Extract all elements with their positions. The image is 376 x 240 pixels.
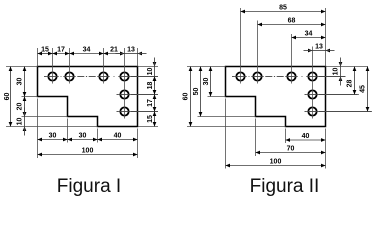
svg-text:50: 50 [193, 88, 200, 96]
svg-text:70: 70 [287, 146, 295, 153]
svg-text:30: 30 [203, 78, 210, 86]
svg-text:10: 10 [17, 118, 24, 126]
svg-text:13: 13 [127, 47, 135, 54]
svg-text:20: 20 [17, 103, 24, 111]
svg-text:28: 28 [347, 80, 354, 88]
svg-text:100: 100 [270, 159, 282, 166]
svg-text:45: 45 [360, 85, 367, 93]
svg-text:21: 21 [110, 47, 118, 54]
svg-text:Figura II: Figura II [250, 176, 320, 197]
svg-text:Figura I: Figura I [57, 176, 121, 197]
svg-text:10: 10 [147, 68, 154, 76]
svg-text:68: 68 [288, 18, 296, 25]
svg-text:30: 30 [17, 78, 24, 86]
svg-text:40: 40 [302, 133, 310, 140]
svg-text:30: 30 [49, 133, 57, 140]
svg-text:15: 15 [147, 115, 154, 123]
svg-text:15: 15 [41, 47, 49, 54]
svg-text:17: 17 [57, 47, 65, 54]
svg-text:13: 13 [315, 44, 323, 51]
svg-text:30: 30 [79, 133, 87, 140]
svg-text:40: 40 [114, 133, 122, 140]
svg-text:17: 17 [147, 99, 154, 107]
svg-text:18: 18 [147, 82, 154, 90]
svg-text:60: 60 [183, 93, 190, 101]
svg-text:85: 85 [279, 5, 287, 12]
svg-text:10: 10 [333, 68, 340, 76]
svg-text:100: 100 [82, 148, 94, 155]
svg-text:60: 60 [4, 93, 11, 101]
svg-text:34: 34 [83, 47, 91, 54]
svg-text:34: 34 [305, 31, 313, 38]
